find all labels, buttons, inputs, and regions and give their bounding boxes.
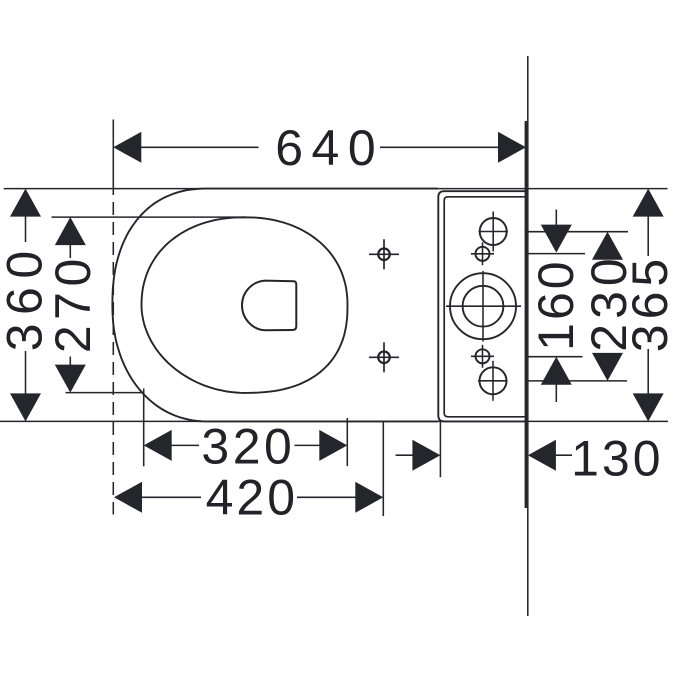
extension line x=143.5 (320 left) bbox=[143, 389, 145, 467]
top extension line (bowl top, y=188.6) bbox=[4, 188, 668, 190]
fixing hole bottom bbox=[471, 345, 494, 368]
dimension 160 bbox=[541, 210, 572, 403]
svg-text:130: 130 bbox=[571, 430, 663, 486]
dimension 130 bbox=[396, 440, 572, 471]
wall line thick segment bbox=[525, 121, 527, 508]
svg-text:640: 640 bbox=[275, 120, 384, 176]
160 bottom extension line y=356.7 bbox=[527, 356, 583, 358]
cistern inner edge bbox=[444, 197, 527, 417]
dimension 420 bbox=[114, 482, 383, 513]
dimension 365 bbox=[633, 189, 664, 422]
extension line x=347.3 (320 right) bbox=[346, 418, 348, 466]
270 top extension line y=217.1 bbox=[52, 216, 247, 218]
drain outlet shape bbox=[242, 281, 296, 331]
flush valve bbox=[446, 271, 521, 342]
extension line x=440.4 (130 left) bbox=[439, 422, 441, 478]
seat fixing mark bottom bbox=[369, 342, 399, 372]
inlet hole top bbox=[479, 212, 509, 252]
bottom extension line (bowl bottom, y=421.4) bbox=[0, 420, 668, 422]
extension line x=383.3 (420 right) bbox=[382, 422, 384, 517]
inlet hole bottom bbox=[478, 361, 508, 401]
bowl outline bbox=[112, 189, 437, 422]
dimension 230 bbox=[592, 232, 623, 381]
seat fixing mark top bbox=[369, 239, 399, 269]
230 top extension line y=231.7 bbox=[525, 231, 629, 233]
fixing hole top bbox=[471, 242, 494, 265]
dimension 270 bbox=[55, 217, 86, 393]
svg-text:365: 365 bbox=[622, 254, 675, 352]
230 bottom extension line y=380.9 bbox=[528, 380, 628, 382]
160 top extension line y=253.6 bbox=[528, 253, 585, 255]
svg-text:270: 270 bbox=[45, 253, 101, 353]
centerline x=113 bbox=[112, 120, 114, 183]
seat opening oval bbox=[142, 217, 348, 393]
dimension 320 bbox=[144, 430, 348, 461]
svg-text:420: 420 bbox=[206, 470, 298, 526]
270 bottom extension line y=392.6 bbox=[66, 392, 145, 394]
wall line bbox=[527, 56, 529, 616]
dimension 640 bbox=[113, 132, 526, 163]
cistern outer edge bbox=[438, 191, 527, 421]
dimension 360 bbox=[10, 189, 41, 422]
svg-text:320: 320 bbox=[201, 419, 295, 475]
svg-text:160: 160 bbox=[528, 258, 584, 350]
